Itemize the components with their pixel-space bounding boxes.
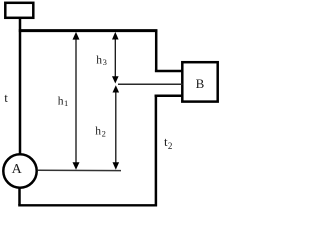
svg-text:h1: h1 (58, 95, 69, 108)
svg-text:A: A (12, 162, 23, 177)
svg-text:h3: h3 (96, 54, 107, 67)
svg-text:t: t (4, 90, 8, 105)
svg-text:B: B (196, 76, 205, 91)
svg-text:h2: h2 (95, 126, 106, 139)
